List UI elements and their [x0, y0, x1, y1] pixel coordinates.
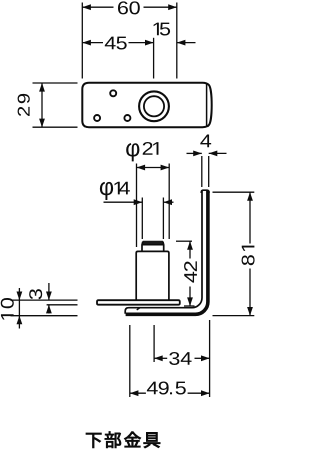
screw hole bottom left — [94, 115, 100, 121]
dimension phi21 line — [137, 167, 170, 169]
dimension 15 outside arrow right — [177, 42, 196, 44]
dimension 49.5 extension line left — [129, 325, 131, 397]
dimension text 81 (rotated) — [242, 246, 255, 266]
dimension text 34 — [169, 352, 191, 365]
dimension text 15 — [154, 23, 171, 36]
dimension 4 outside arrows — [187, 152, 202, 154]
dimension 60 line — [82, 6, 113, 8]
screw hole bottom right — [124, 115, 130, 121]
caption kanji GU — [144, 432, 160, 448]
boss cylinder step collar line — [142, 244, 164, 246]
dimension text 45 — [105, 37, 127, 50]
dimension 34 extension line left (boss centerline) — [153, 325, 155, 362]
dimension 34 line — [154, 357, 167, 359]
dimension 4 extension lines — [201, 156, 203, 187]
extension line plate top level — [11, 299, 78, 301]
dimension 45 line — [82, 42, 103, 44]
extension line plate bottom level — [47, 304, 78, 306]
shared right extension line — [209, 320, 211, 397]
boss cylinder step sides — [142, 242, 164, 252]
L-bracket leg top edge and flange inner face — [125, 191, 202, 314]
caption kanji BU — [105, 431, 121, 447]
upper seat plate side view — [97, 300, 180, 305]
dimension phi14 outside arrows — [104, 201, 143, 203]
dimension 42 line — [189, 241, 191, 258]
L-bracket flange top cap — [201, 190, 209, 193]
extension line bracket bottom level — [11, 315, 78, 317]
dimension text 3 (rotated) — [29, 289, 42, 299]
dimension 10 line — [18, 288, 20, 329]
dimension text 49.5 — [147, 381, 186, 394]
boss cylinder top cap (dark chamfer band) — [142, 241, 164, 245]
boss cylinder shoulder — [136, 251, 169, 253]
dimension text phi14 — [100, 182, 130, 200]
dimension 15 extension line left — [153, 38, 155, 79]
plate top view outline — [82, 83, 211, 127]
dimension 60 arrowheads — [82, 4, 177, 10]
caption kanji SHITA — [86, 433, 101, 448]
dimension 29 line — [41, 83, 43, 127]
dimension 29 extension lines — [33, 82, 78, 84]
dimension text 42 (rotated) — [184, 261, 197, 282]
dimension text 10 (rotated) — [1, 298, 14, 319]
plate top view bend tangent line — [206, 84, 208, 126]
boss inner circle phi14 top view — [144, 96, 164, 116]
dimension 45 arrowheads — [82, 40, 153, 46]
dimension 81 extension lines — [213, 191, 255, 193]
caption kanji KIN — [124, 432, 140, 448]
dimension 60 extension line left — [81, 3, 83, 79]
dimension 42 extension ticks — [176, 240, 192, 242]
boss cylinder body sides — [136, 253, 169, 300]
screw hole top — [110, 90, 116, 96]
dimension text phi21 — [126, 142, 158, 161]
dimension 81 line — [249, 192, 251, 243]
dimension 49.5 line — [130, 392, 146, 394]
dimension phi21 extension lines — [136, 164, 138, 248]
dimension text 4 — [200, 135, 211, 148]
dimension 3 line — [48, 283, 50, 300]
dimension text 29 (rotated) — [18, 94, 30, 116]
boss outer circle phi21 top view — [139, 91, 169, 121]
dimension text 60 — [118, 1, 140, 14]
leg top edge nick at cylinder base — [137, 307, 141, 310]
dimension phi14 extension lines — [141, 198, 143, 240]
L-bracket outer silhouette (thick) — [126, 191, 208, 314]
dimension 60/15 extension line right — [176, 3, 178, 79]
